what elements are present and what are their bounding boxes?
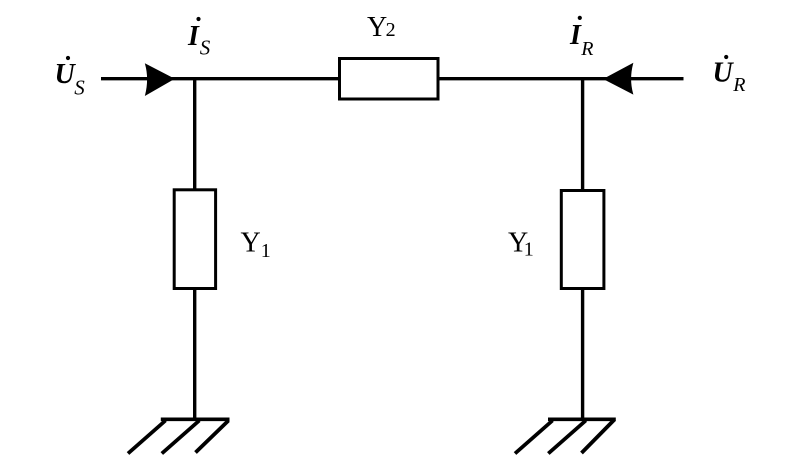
svg-text:U: U bbox=[713, 58, 735, 89]
svg-text:2: 2 bbox=[386, 19, 396, 41]
wire: left vertical from Y1 box to ground bbox=[193, 289, 196, 421]
svg-text:R: R bbox=[580, 38, 593, 60]
svg-text:Y: Y bbox=[241, 227, 261, 258]
svg-text:I: I bbox=[187, 21, 200, 52]
admittance Y1 right (shunt branch box) bbox=[561, 191, 604, 289]
label U_R phasor dot bbox=[724, 55, 728, 59]
ground: right earth hatch stroke 3 bbox=[582, 420, 615, 454]
svg-text:Y: Y bbox=[367, 12, 387, 43]
admittance Y2 (series branch box) bbox=[340, 59, 439, 100]
svg-text:1: 1 bbox=[524, 239, 534, 261]
label U_S phasor dot bbox=[66, 56, 70, 60]
arrowhead: sending-end current direction (points right) bbox=[146, 64, 174, 95]
wire: left vertical from node S to Y1 box bbox=[193, 79, 196, 190]
svg-text:S: S bbox=[74, 76, 85, 100]
label I_R phasor dot bbox=[578, 16, 582, 20]
svg-text:1: 1 bbox=[261, 240, 271, 262]
ground: left earth hatch stroke 1 bbox=[128, 421, 166, 454]
label I_S phasor dot bbox=[196, 17, 200, 21]
ground: left earth hatch stroke 2 bbox=[162, 421, 200, 454]
ground: right earth symbol bar bbox=[548, 417, 616, 421]
ground: right earth hatch stroke 1 bbox=[515, 421, 553, 454]
svg-text:S: S bbox=[200, 36, 211, 60]
wire: right vertical from Y1 box to ground bbox=[581, 289, 584, 421]
wire: right vertical from node R to Y1 box bbox=[581, 79, 584, 191]
ground: right earth hatch stroke 2 bbox=[548, 421, 586, 454]
wire: left source lead into node S bbox=[101, 77, 340, 80]
wire: node S to Y2 already covered; wire from Y2 to right end bbox=[438, 77, 684, 80]
svg-text:U: U bbox=[55, 59, 77, 90]
svg-text:I: I bbox=[569, 20, 582, 51]
svg-text:R: R bbox=[732, 74, 745, 96]
admittance Y1 left (shunt branch box) bbox=[174, 190, 215, 289]
ground: left earth symbol bar bbox=[161, 417, 230, 421]
arrowhead: receiving-end current direction (points left) bbox=[604, 64, 632, 94]
ground: left earth hatch stroke 3 bbox=[196, 421, 229, 453]
